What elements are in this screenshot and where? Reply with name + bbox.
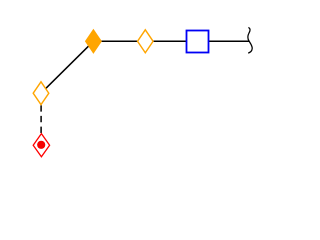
- node red dot: [37, 141, 45, 149]
- wire horizontal bond 1: [93, 40, 145, 42]
- wire dashed vertical bond: [40, 105, 42, 134]
- reducing-end squiggle: [248, 27, 252, 53]
- wire horizontal bond 3: [198, 40, 250, 42]
- node open orange diamond top: [138, 30, 154, 53]
- wire horizontal bond 2: [145, 40, 197, 42]
- node blue square: [187, 31, 209, 53]
- node open orange diamond lower: [33, 82, 49, 105]
- wire diagonal bond: [41, 41, 93, 93]
- node red diamond: [33, 134, 49, 157]
- node filled orange diamond: [86, 30, 102, 53]
